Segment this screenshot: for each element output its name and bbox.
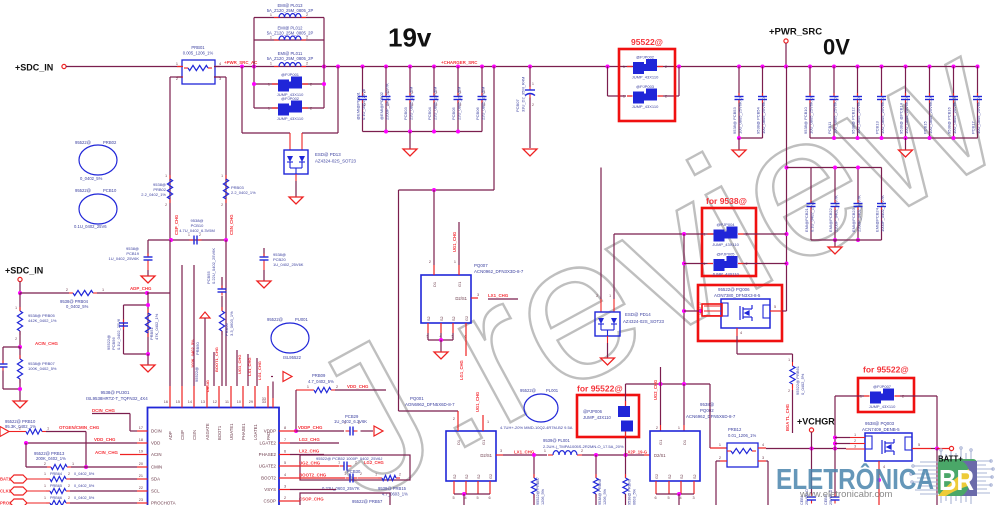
svg-text:1: 1 — [609, 294, 611, 298]
wire to ESD PD13 left — [241, 67, 243, 134]
svg-text:2: 2 — [310, 107, 312, 111]
ellipse PL001 variant — [524, 394, 558, 422]
resistor PRB01 (current sense) — [182, 60, 215, 84]
svg-text:10U_0805_25V6K-D: 10U_0805_25V6K-D — [761, 97, 766, 134]
wire battery FET top rail — [626, 383, 711, 385]
svg-text:LG2_CHG: LG2_CHG — [364, 460, 384, 465]
svg-text:CSIN: CSIN — [192, 430, 197, 440]
wire PRB01 pin2 down CSP — [170, 76, 182, 78]
svg-text:S2: S2 — [453, 474, 457, 479]
wire main 19v bus — [214, 66, 978, 68]
ground PCB53 — [738, 138, 740, 150]
svg-text:PQ001: PQ001 — [410, 396, 424, 401]
svg-text:10U_0805_25V6K-D: 10U_0805_25V6K-D — [856, 97, 861, 134]
svg-text:4: 4 — [219, 62, 221, 66]
wire CEB3 column — [834, 449, 836, 497]
svg-text:ACN6962_DFN5X6D-8-7: ACN6962_DFN5X6D-8-7 — [686, 414, 736, 419]
ellipse PCB10 variant — [79, 194, 117, 224]
svg-text:9538@ PRBN6: 9538@ PRBN6 — [628, 479, 632, 505]
svg-text:JUMP_43X110: JUMP_43X110 — [277, 116, 304, 121]
svg-text:1: 1 — [47, 427, 49, 431]
svg-text:2: 2 — [364, 103, 366, 107]
svg-text:95522@ PQ006: 95522@ PQ006 — [718, 287, 750, 292]
pin +SDC_IN 2 — [18, 277, 22, 281]
svg-text:D1: D1 — [432, 281, 437, 287]
svg-text:3.3_0603_1%: 3.3_0603_1% — [229, 311, 234, 336]
svg-text:VDD: VDD — [151, 441, 160, 446]
svg-text:2: 2 — [221, 203, 223, 207]
wire VCHGR bus — [766, 448, 846, 450]
svg-text:3: 3 — [477, 293, 479, 297]
svg-text:2: 2 — [788, 389, 790, 393]
svg-text:14: 14 — [188, 400, 192, 404]
resistor PRB15 — [358, 477, 378, 479]
capacitor PCB05 — [456, 65, 460, 69]
wire VDDP riser — [295, 390, 297, 431]
pin PQ006 5 — [770, 310, 782, 312]
svg-text:S2: S2 — [465, 474, 469, 479]
svg-text:2: 2 — [66, 288, 68, 292]
svg-text:2: 2 — [460, 103, 462, 107]
svg-text:2: 2 — [453, 417, 455, 421]
svg-text:@PJP003: @PJP003 — [636, 84, 655, 89]
jumper PJP007 — [835, 395, 864, 397]
svg-text:ISL9538HRTZ-T_TQFN32_4X4: ISL9538HRTZ-T_TQFN32_4X4 — [86, 396, 148, 401]
svg-text:1: 1 — [703, 262, 705, 266]
svg-text:PRB50: PRB50 — [195, 342, 200, 355]
svg-text:10U_0805_25V6K-D: 10U_0805_25V6K-D — [880, 97, 885, 134]
wire LX node — [503, 454, 547, 456]
pin CMIN PU301 — [137, 466, 148, 468]
svg-text:29: 29 — [249, 400, 253, 404]
svg-text:1: 1 — [15, 306, 17, 310]
ground PQ007 — [440, 340, 442, 352]
resistor PRB04 — [20, 292, 69, 294]
ellipse PRB02 variant — [79, 145, 117, 175]
resistor PRBN6 — [625, 455, 627, 478]
wire OTGEN to CMIN — [46, 431, 86, 433]
svg-text:9538@ PCB53: 9538@ PCB53 — [732, 106, 737, 134]
svg-text:1: 1 — [388, 90, 390, 94]
svg-text:G2: G2 — [465, 316, 469, 321]
wire jumper feed upper — [614, 233, 714, 235]
svg-text:1: 1 — [460, 90, 462, 94]
svg-text:6: 6 — [655, 496, 657, 500]
wire ACIN — [120, 454, 137, 456]
wire LX to PQ002 — [582, 454, 644, 456]
ESD diode PD14 — [600, 299, 602, 312]
svg-text:JUMP_43X110: JUMP_43X110 — [712, 242, 739, 247]
svg-text:D1: D1 — [682, 439, 687, 445]
capacitor EMI@PCB21 — [810, 168, 812, 204]
pin PROCHOTA PU301 — [137, 502, 148, 504]
svg-text:0.01_1206_1%: 0.01_1206_1% — [728, 433, 756, 438]
svg-text:PCB05: PCB05 — [451, 107, 456, 120]
resistor PRB09 — [296, 389, 310, 391]
svg-text:2: 2 — [15, 337, 17, 341]
svg-text:1U_0402_25V6K: 1U_0402_25V6K — [273, 262, 304, 267]
svg-text:BOOT1: BOOT1 — [217, 425, 222, 440]
wire VCHGR pin stub — [811, 432, 813, 449]
svg-text:for 95522@: for 95522@ — [577, 384, 623, 394]
svg-text:18: 18 — [139, 438, 143, 442]
svg-text:0.1U_0402_25V6: 0.1U_0402_25V6 — [810, 200, 815, 232]
svg-text:2: 2 — [306, 13, 308, 17]
svg-text:13: 13 — [201, 400, 205, 404]
svg-text:95522@ PRBB7: 95522@ PRBB7 — [536, 477, 540, 505]
svg-text:OTGEN/CMIN_CHG: OTGEN/CMIN_CHG — [59, 425, 100, 430]
wire to ADP row — [19, 282, 21, 294]
pin PQ001 D2/S1 LX — [496, 454, 503, 456]
highlight box PQ006 — [698, 285, 782, 341]
svg-text:S2: S2 — [693, 474, 697, 479]
svg-text:2: 2 — [165, 203, 167, 207]
svg-text:ACIN_CHG: ACIN_CHG — [95, 450, 119, 455]
svg-text:G1: G1 — [481, 439, 486, 445]
wire bus bypass to jumper box — [606, 65, 610, 69]
svg-text:www.eletronicabr.com: www.eletronicabr.com — [799, 489, 892, 500]
svg-text:ISL95522: ISL95522 — [283, 355, 302, 360]
svg-text:LGATE2: LGATE2 — [259, 441, 276, 446]
svg-text:D1: D1 — [456, 439, 461, 445]
svg-text:1206_5%: 1206_5% — [541, 488, 545, 505]
net label BGA TL_CHG — [792, 384, 794, 390]
svg-text:1: 1 — [484, 90, 486, 94]
ground EMI bank — [834, 240, 836, 247]
svg-text:4.7U_0402_6.3V5M: 4.7U_0402_6.3V5M — [179, 228, 215, 233]
pin VDDP PU301 — [279, 430, 290, 432]
pin ACIN PU301 — [137, 454, 148, 456]
svg-text:@EMI@PCB01: @EMI@PCB01 — [356, 91, 361, 120]
svg-text:1: 1 — [268, 83, 270, 87]
svg-text:@PJP002: @PJP002 — [636, 55, 655, 60]
svg-text:12: 12 — [213, 400, 217, 404]
svg-text:@PJP007: @PJP007 — [873, 384, 892, 389]
svg-text:2: 2 — [532, 103, 534, 107]
svg-text:for 9538@: for 9538@ — [706, 196, 747, 206]
svg-text:2: 2 — [665, 95, 667, 99]
svg-text:2: 2 — [44, 462, 46, 466]
jumper PJP002 (top) — [633, 62, 644, 74]
pin PQ003 5 — [912, 448, 931, 450]
wire VDD right — [335, 389, 386, 391]
svg-text:95522@: 95522@ — [75, 140, 91, 145]
svg-text:EMI@PCB22: EMI@PCB22 — [828, 207, 833, 232]
svg-text:+SDC_IN: +SDC_IN — [5, 266, 43, 276]
wire to ESD PD13 right — [337, 67, 339, 134]
ground cap bank B — [905, 138, 907, 150]
ground PCB07 — [523, 149, 537, 156]
svg-text:VDDP: VDDP — [264, 429, 276, 434]
svg-text:ESD@ PD14: ESD@ PD14 — [625, 312, 651, 317]
pin PHASE2 PU301 — [279, 454, 290, 456]
svg-text:1: 1 — [788, 358, 790, 362]
svg-text:19: 19 — [139, 450, 143, 454]
wire VSYS — [290, 489, 336, 491]
svg-text:for 95522@: for 95522@ — [863, 365, 909, 375]
svg-text:VSYS: VSYS — [264, 487, 276, 492]
svg-text:95522@: 95522@ — [267, 317, 283, 322]
inductor PL011 — [274, 66, 279, 68]
svg-text:95522@: 95522@ — [75, 188, 91, 193]
svg-text:S2: S2 — [452, 316, 456, 321]
svg-text:PROCHOTA: PROCHOTA — [151, 501, 176, 505]
net label ACIN_CHG — [19, 331, 21, 347]
svg-text:EMI@PCB23: EMI@PCB23 — [851, 207, 856, 232]
wire PRB12 kelvin 3 — [758, 460, 766, 462]
svg-text:JUMP_43X110: JUMP_43X110 — [712, 272, 739, 277]
resistor PRBN8 — [595, 455, 597, 478]
svg-text:CSOP_CHG: CSOP_CHG — [299, 497, 324, 502]
wire PRB01 pin3 down CSN — [214, 76, 226, 78]
svg-text:ADP_CHG: ADP_CHG — [130, 286, 152, 291]
resistor PRB12 — [710, 447, 727, 449]
svg-text:VDDP_CHG: VDDP_CHG — [298, 425, 323, 430]
wire charger src drop — [492, 65, 496, 69]
wire CMIN — [71, 466, 137, 468]
svg-text:0_0402_5%: 0_0402_5% — [80, 176, 103, 181]
svg-text:1: 1 — [176, 62, 178, 66]
svg-text:9538@ PQ003: 9538@ PQ003 — [865, 421, 895, 426]
svg-text:9538@ PCB54: 9538@ PCB54 — [756, 106, 761, 134]
svg-text:1: 1 — [268, 107, 270, 111]
svg-text:1: 1 — [454, 260, 456, 264]
power arrow PRB50 — [200, 312, 210, 318]
capacitor PCB19 — [147, 240, 149, 256]
pin BOOT1 PU301 — [218, 386, 220, 408]
pin VDD PU301 — [137, 442, 148, 444]
svg-text:ACIN_CHG: ACIN_CHG — [35, 341, 59, 346]
svg-text:LG1_CHG: LG1_CHG — [459, 360, 464, 380]
svg-text:2200P_0402_50V7K: 2200P_0402_50V7K — [857, 195, 862, 232]
svg-text:LX2P_19-G: LX2P_19-G — [625, 450, 647, 455]
pin ADP PU301 — [169, 386, 171, 408]
ellipse PU001 — [271, 323, 309, 353]
resistor PRB07 — [19, 347, 21, 359]
svg-text:PCB17: PCB17 — [971, 121, 976, 134]
svg-text:SDA: SDA — [151, 477, 160, 482]
svg-text:1: 1 — [188, 233, 190, 237]
wire BATT down — [936, 449, 938, 505]
svg-text:9538@ @PCB14: 9538@ @PCB14 — [899, 102, 904, 134]
pin UGATE2 PU301 — [279, 465, 290, 467]
wire PQ002 source rail — [656, 493, 694, 495]
svg-text:PCB10: PCB10 — [103, 188, 117, 193]
svg-text:9538@ PCB12: 9538@ PCB12 — [851, 106, 856, 134]
resistor PRB64 — [27, 478, 46, 480]
svg-text:JUMP_43X110: JUMP_43X110 — [632, 75, 659, 80]
wire VDDP — [290, 430, 296, 432]
svg-text:UG1_CHG: UG1_CHG — [237, 355, 242, 374]
wire +PWR_SRC vertical — [786, 67, 788, 312]
highlight box 95522@ — [619, 49, 675, 121]
transistor PQ007 — [421, 275, 471, 323]
svg-text:ACN0962_DFN3X3D-8-7: ACN0962_DFN3X3D-8-7 — [474, 269, 524, 274]
wire CSIN jog — [193, 265, 195, 386]
wire LGATE2 — [290, 442, 339, 444]
svg-text:4: 4 — [284, 473, 286, 477]
svg-text:3: 3 — [284, 485, 286, 489]
svg-text:2: 2 — [388, 103, 390, 107]
svg-text:2: 2 — [719, 456, 721, 460]
svg-text:17: 17 — [139, 426, 143, 430]
svg-text:9538@ PCB16: 9538@ PCB16 — [947, 106, 952, 134]
jumper PJP001 — [254, 83, 324, 85]
svg-text:CSOP: CSOP — [264, 499, 277, 504]
svg-text:95522@: 95522@ — [520, 388, 536, 393]
svg-text:9539@ PL001: 9539@ PL001 — [543, 438, 571, 443]
jumper PJP003 (bottom) — [633, 92, 644, 104]
svg-text:47K_0402_1%: 47K_0402_1% — [154, 313, 159, 340]
svg-text:1: 1 — [307, 385, 309, 389]
resistor PRBB7 — [533, 455, 535, 478]
wire PHASE1 column — [247, 354, 249, 386]
svg-text:4: 4 — [680, 496, 682, 500]
svg-text:9538@ PRB15: 9538@ PRB15 — [378, 486, 407, 491]
svg-text:2.2_0402_1%: 2.2_0402_1% — [141, 192, 166, 197]
svg-text:2: 2 — [19, 427, 21, 431]
svg-text:10U_0805_25V6K-D: 10U_0805_25V6K-D — [738, 97, 743, 134]
capacitor PCB12 — [856, 65, 860, 69]
svg-text:@PJP001: @PJP001 — [281, 72, 300, 77]
svg-text:2: 2 — [360, 472, 362, 476]
capacitor PCB30 — [346, 477, 350, 479]
svg-text:2: 2 — [399, 473, 401, 477]
pin PQ006 4 — [736, 328, 738, 336]
svg-text:BOOT1_CHG: BOOT1_CHG — [214, 347, 219, 372]
svg-text:1: 1 — [623, 65, 625, 69]
svg-text:2.2_0402_1%: 2.2_0402_1% — [231, 190, 256, 195]
svg-text:7: 7 — [284, 438, 286, 442]
svg-text:PRB09: PRB09 — [312, 373, 326, 378]
svg-text:LX1_CHG: LX1_CHG — [488, 293, 509, 298]
svg-text:10U_0805_25V6K-D: 10U_0805_25V6K-D — [976, 97, 981, 134]
wire ACIN branch left — [3, 346, 20, 348]
wire EMI bank rail — [811, 239, 882, 241]
svg-text:2: 2 — [665, 65, 667, 69]
svg-text:0_0402_5%: 0_0402_5% — [66, 304, 89, 309]
svg-text:@EMI@PCB02: @EMI@PCB02 — [379, 91, 384, 120]
svg-text:2: 2 — [854, 439, 856, 443]
svg-text:16: 16 — [164, 400, 168, 404]
svg-text:200K_0402_1%: 200K_0402_1% — [36, 456, 66, 461]
svg-text:1: 1 — [623, 95, 625, 99]
svg-text:0.1U_0402_25V6: 0.1U_0402_25V6 — [74, 224, 107, 229]
pins PQ006 left — [684, 310, 702, 312]
svg-text:10U_0805_25V6K-D: 10U_0805_25V6K-D — [952, 97, 957, 134]
svg-text:BOOT2: BOOT2 — [261, 476, 276, 481]
svg-text:CSN_CHG: CSN_CHG — [229, 215, 234, 235]
svg-text:UG2_CHG: UG2_CHG — [653, 380, 658, 400]
loop box UGATE2/BOOT2 — [300, 455, 410, 480]
svg-text:2: 2 — [336, 385, 338, 389]
svg-text:2200P_0402_50V7K: 2200P_0402_50V7K — [834, 195, 839, 232]
svg-text:D2/S1: D2/S1 — [654, 453, 666, 458]
capacitor PCB10 — [808, 65, 812, 69]
wire EMI box left rail — [253, 18, 255, 109]
svg-text:BGA TL_CHG: BGA TL_CHG — [785, 404, 790, 431]
wire EMI box right rail — [323, 18, 325, 109]
pin LGATE2 PU301 — [279, 442, 290, 444]
svg-text:1: 1 — [165, 174, 167, 178]
capacitor PCB15 — [928, 65, 932, 69]
resistor PRB10 — [9, 431, 22, 433]
svg-text:S2: S2 — [427, 316, 431, 321]
svg-text:0_0402_5%: 0_0402_5% — [74, 484, 95, 488]
pin +SDC_IN — [62, 64, 66, 68]
svg-text:+VCHGR: +VCHGR — [797, 417, 835, 427]
svg-text:1: 1 — [532, 82, 534, 86]
junction dots top bus left — [240, 65, 244, 69]
jumper PJP004 — [714, 230, 725, 242]
svg-text:9538@ PRBN8: 9538@ PRBN8 — [598, 479, 602, 505]
svg-text:1: 1 — [375, 473, 377, 477]
svg-text:5: 5 — [918, 443, 920, 447]
svg-text:PU001: PU001 — [295, 317, 308, 322]
wire PJP006 bottom — [625, 437, 627, 455]
svg-text:1: 1 — [102, 288, 104, 292]
svg-text:10U_0805_25V6K-D: 10U_0805_25V6K-D — [928, 97, 933, 134]
svg-text:2: 2 — [68, 496, 70, 500]
svg-text:JUMP_43X110: JUMP_43X110 — [583, 415, 612, 420]
svg-text:10U_0805_25V6K-D: 10U_0805_25V6K-D — [904, 97, 909, 134]
svg-text:BATT+: BATT+ — [938, 455, 963, 464]
capacitor PCB14 — [904, 65, 908, 69]
capacitor PCB11 — [832, 65, 836, 69]
svg-text:1206_5%: 1206_5% — [603, 488, 607, 505]
wire LGATE1 column — [256, 358, 258, 386]
wire BOOT1 column — [213, 352, 215, 386]
svg-text:UG2_CHG: UG2_CHG — [299, 461, 321, 466]
svg-text:UG1_CHG: UG1_CHG — [452, 232, 457, 252]
loop box CSOP — [300, 493, 390, 505]
capacitor EMI@PCB22 — [834, 168, 836, 204]
resistor PRB03 — [225, 175, 227, 179]
capacitor PCB07 — [528, 65, 532, 69]
svg-text:PL001: PL001 — [546, 388, 559, 393]
wire CSP/CSN link — [148, 239, 226, 241]
svg-text:2: 2 — [484, 103, 486, 107]
svg-text:G1: G1 — [658, 439, 663, 445]
svg-text:6: 6 — [489, 496, 491, 500]
junction LX column — [532, 453, 536, 457]
svg-text:DCIN: DCIN — [151, 429, 162, 434]
inductor PL012 — [254, 39, 324, 41]
resistor PRB06 — [221, 296, 223, 311]
svg-text:21: 21 — [139, 474, 143, 478]
wire PQ002 to PRB12 — [709, 384, 711, 448]
svg-text:5: 5 — [453, 496, 455, 500]
resistor PRB61 — [792, 362, 794, 366]
svg-text:2: 2 — [199, 233, 201, 237]
pin VSYS PU301 — [279, 489, 290, 491]
jumper PJP006 — [618, 406, 630, 417]
svg-text:9538@: 9538@ — [700, 402, 715, 407]
svg-text:PCB13: PCB13 — [875, 121, 880, 134]
svg-text:1: 1 — [344, 472, 346, 476]
svg-text:S2: S2 — [668, 474, 672, 479]
wire UG2 column — [660, 367, 662, 425]
svg-text:VDD_CHG: VDD_CHG — [94, 437, 116, 442]
svg-text:AON6962_DFN5X6D-8-7: AON6962_DFN5X6D-8-7 — [405, 402, 455, 407]
ground PCB20 — [263, 264, 265, 271]
svg-text:PRB01: PRB01 — [191, 45, 205, 50]
capacitor PCB13 — [880, 65, 884, 69]
capacitor PCB56 — [123, 320, 125, 323]
svg-text:LX1_CHG: LX1_CHG — [514, 450, 535, 455]
wire loop PCB56 — [124, 304, 149, 306]
capacitor CEB1 — [811, 494, 813, 497]
